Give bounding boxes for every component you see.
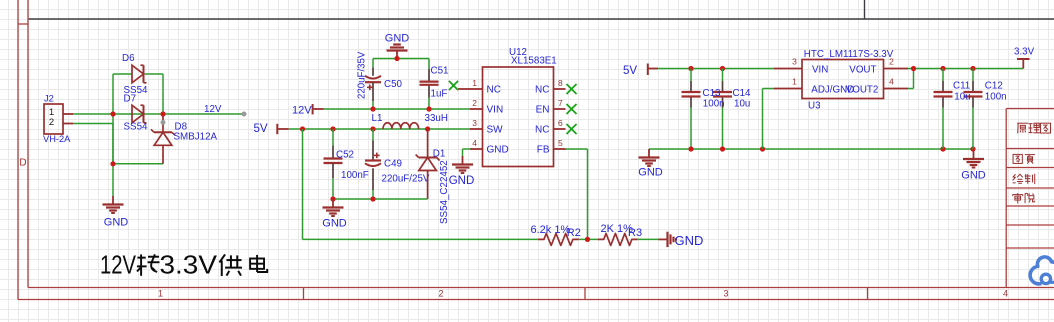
- svg-text:4: 4: [889, 76, 894, 86]
- svg-text:D6: D6: [122, 53, 135, 64]
- svg-text:5V: 5V: [623, 65, 637, 77]
- svg-text:D: D: [19, 158, 26, 169]
- svg-text:100n: 100n: [985, 92, 1007, 103]
- svg-text:C11: C11: [953, 80, 970, 91]
- svg-text:2: 2: [889, 56, 894, 66]
- svg-text:GND: GND: [104, 217, 129, 229]
- svg-text:HTC_LM1117S-3.3V: HTC_LM1117S-3.3V: [804, 49, 894, 60]
- svg-text:3.3V: 3.3V: [160, 252, 218, 280]
- svg-text:C12: C12: [985, 80, 1003, 91]
- svg-text:3: 3: [472, 118, 477, 128]
- svg-text:4: 4: [472, 138, 477, 148]
- svg-text:3: 3: [723, 289, 728, 299]
- svg-text:R2: R2: [567, 227, 581, 239]
- svg-text:1: 1: [472, 78, 477, 88]
- svg-text:SS54: SS54: [124, 122, 149, 133]
- svg-text:C50: C50: [384, 79, 403, 90]
- svg-text:VIN: VIN: [487, 105, 504, 116]
- svg-text:VIN: VIN: [812, 64, 828, 75]
- svg-text:1: 1: [158, 289, 163, 299]
- svg-text:D7: D7: [124, 93, 137, 104]
- svg-text:GND: GND: [638, 167, 663, 179]
- svg-text:2: 2: [438, 289, 443, 299]
- svg-text:GND: GND: [449, 175, 475, 187]
- svg-text:1: 1: [792, 76, 797, 86]
- svg-text:3: 3: [792, 56, 797, 66]
- svg-text:6.2k 1%: 6.2k 1%: [531, 224, 571, 236]
- svg-text:VOUT2: VOUT2: [846, 85, 879, 96]
- svg-text:SS54_C22452: SS54_C22452: [439, 160, 450, 224]
- svg-text:220uF/25V: 220uF/25V: [382, 174, 430, 185]
- svg-text:SMBJ12A: SMBJ12A: [174, 132, 218, 143]
- svg-text:U3: U3: [808, 101, 821, 112]
- svg-text:5: 5: [558, 138, 563, 148]
- svg-text:5V: 5V: [254, 123, 268, 135]
- svg-text:NC: NC: [535, 85, 549, 96]
- svg-text:2: 2: [472, 98, 477, 108]
- svg-text:100nF: 100nF: [341, 170, 369, 181]
- svg-text:3.3V: 3.3V: [1014, 47, 1035, 58]
- svg-text:VOUT: VOUT: [849, 64, 876, 75]
- svg-text:12V: 12V: [204, 104, 222, 115]
- svg-text:10u: 10u: [734, 98, 750, 109]
- svg-text:1uF: 1uF: [431, 89, 448, 100]
- svg-text:GND: GND: [961, 170, 986, 182]
- svg-text:NC: NC: [487, 85, 501, 96]
- svg-text:XL1583E1: XL1583E1: [511, 56, 557, 67]
- svg-text:GND: GND: [385, 33, 410, 45]
- svg-text:33uH: 33uH: [425, 113, 448, 124]
- svg-text:R3: R3: [628, 227, 642, 239]
- svg-text:FB: FB: [537, 145, 550, 156]
- svg-text:2: 2: [49, 117, 54, 128]
- svg-text:6: 6: [558, 118, 563, 128]
- svg-text:4: 4: [1003, 289, 1008, 299]
- svg-text:L1: L1: [372, 113, 383, 124]
- svg-text:D1: D1: [433, 149, 446, 160]
- svg-text:NC: NC: [535, 125, 549, 136]
- svg-text:12V: 12V: [292, 105, 312, 117]
- svg-text:GND: GND: [322, 218, 347, 230]
- svg-text:SW: SW: [487, 125, 504, 136]
- svg-text:GND: GND: [675, 233, 704, 248]
- svg-text:12V: 12V: [100, 252, 136, 280]
- svg-text:VH-2A: VH-2A: [43, 134, 71, 144]
- svg-text:C51: C51: [431, 66, 449, 77]
- svg-text:8: 8: [558, 78, 563, 88]
- svg-text:10u: 10u: [954, 92, 970, 103]
- svg-text:220uF/35V: 220uF/35V: [357, 51, 368, 99]
- svg-text:7: 7: [558, 98, 563, 108]
- svg-text:100n: 100n: [703, 98, 725, 109]
- svg-text:GND: GND: [487, 145, 509, 156]
- svg-text:C52: C52: [336, 150, 354, 161]
- svg-text:C49: C49: [384, 159, 402, 170]
- svg-text:EN: EN: [536, 105, 550, 116]
- svg-text:J2: J2: [44, 94, 54, 104]
